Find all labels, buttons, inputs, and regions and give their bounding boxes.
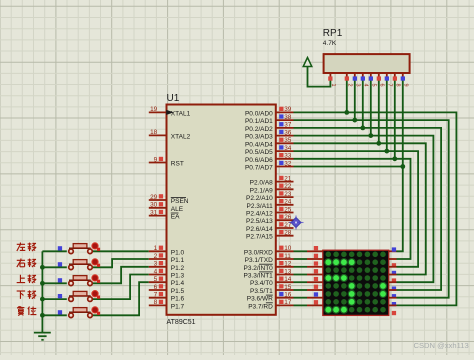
svg-text:8: 8 (154, 299, 158, 306)
svg-text:36: 36 (284, 129, 292, 136)
svg-text:P3.7/RD: P3.7/RD (248, 303, 273, 310)
svg-text:26: 26 (284, 214, 292, 221)
svg-text:P3.6/WR: P3.6/WR (247, 296, 273, 303)
svg-text:P1.4: P1.4 (171, 280, 185, 287)
svg-text:32: 32 (284, 160, 292, 167)
svg-text:P0.5/AD5: P0.5/AD5 (245, 149, 273, 156)
svg-text:P3.1/TXD: P3.1/TXD (245, 257, 273, 264)
svg-text:P1.3: P1.3 (171, 273, 185, 280)
svg-text:9: 9 (154, 156, 158, 163)
svg-text:P1.2: P1.2 (171, 265, 185, 272)
svg-text:P0.4/AD4: P0.4/AD4 (245, 141, 273, 148)
svg-text:2: 2 (346, 84, 352, 87)
svg-text:RST: RST (171, 161, 184, 168)
svg-text:P0.7/AD7: P0.7/AD7 (245, 165, 273, 172)
svg-text:31: 31 (150, 209, 158, 216)
svg-text:16: 16 (284, 292, 292, 299)
svg-text:15: 15 (284, 284, 292, 291)
svg-text:P1.0: P1.0 (171, 249, 185, 256)
svg-text:P3.3/INT1: P3.3/INT1 (244, 273, 274, 280)
svg-text:25: 25 (284, 206, 292, 213)
svg-text:1: 1 (154, 245, 158, 252)
svg-text:4: 4 (362, 84, 368, 87)
svg-text:P3.2/INT0: P3.2/INT0 (244, 265, 274, 272)
svg-text:12: 12 (284, 261, 292, 268)
svg-text:6: 6 (154, 284, 158, 291)
svg-text:P0.1/AD1: P0.1/AD1 (245, 118, 273, 125)
svg-text:P3.5/T1: P3.5/T1 (250, 288, 273, 295)
svg-text:6: 6 (378, 84, 384, 87)
svg-text:29: 29 (150, 194, 158, 201)
svg-text:XTAL2: XTAL2 (171, 133, 191, 140)
svg-text:7: 7 (154, 292, 158, 299)
svg-text:5: 5 (370, 84, 376, 87)
svg-text:PSEN: PSEN (171, 198, 189, 205)
svg-text:EA: EA (171, 214, 180, 221)
svg-text:P2.5/A13: P2.5/A13 (246, 218, 273, 225)
svg-text:37: 37 (284, 122, 292, 129)
svg-text:1: 1 (330, 84, 336, 87)
svg-text:19: 19 (150, 106, 158, 113)
svg-text:28: 28 (284, 230, 292, 237)
svg-text:5: 5 (154, 276, 158, 283)
svg-text:RP1: RP1 (323, 28, 343, 39)
svg-text:21: 21 (284, 175, 292, 182)
svg-text:2: 2 (154, 253, 158, 260)
svg-text:7: 7 (386, 84, 392, 87)
svg-text:P0.3/AD3: P0.3/AD3 (245, 134, 273, 141)
svg-text:P2.3/A11: P2.3/A11 (247, 203, 274, 210)
svg-text:13: 13 (284, 268, 292, 275)
svg-text:P2.2/A10: P2.2/A10 (246, 195, 273, 202)
svg-text:38: 38 (284, 114, 292, 121)
svg-text:P2.1/A9: P2.1/A9 (250, 187, 274, 194)
svg-text:ALE: ALE (171, 206, 184, 213)
svg-text:P3.4/T0: P3.4/T0 (250, 280, 273, 287)
svg-text:3: 3 (354, 84, 360, 87)
svg-text:23: 23 (284, 191, 292, 198)
svg-text:XTAL1: XTAL1 (171, 110, 191, 117)
svg-text:18: 18 (150, 129, 158, 136)
svg-text:P2.7/A15: P2.7/A15 (246, 234, 273, 241)
svg-text:P3.0/RXD: P3.0/RXD (244, 249, 273, 256)
svg-text:39: 39 (284, 106, 292, 113)
svg-text:P0.0/AD0: P0.0/AD0 (245, 110, 273, 117)
svg-text:P1.5: P1.5 (171, 288, 185, 295)
svg-text:4.7K: 4.7K (323, 40, 337, 47)
svg-text:P0.6/AD6: P0.6/AD6 (245, 157, 273, 164)
svg-text:P0.2/AD2: P0.2/AD2 (245, 126, 273, 133)
svg-text:33: 33 (284, 153, 292, 160)
svg-text:14: 14 (284, 276, 292, 283)
svg-text:P2.4/A12: P2.4/A12 (246, 211, 273, 218)
svg-text:11: 11 (284, 253, 291, 260)
svg-text:P1.1: P1.1 (171, 257, 185, 264)
svg-text:10: 10 (284, 245, 292, 252)
svg-text:3: 3 (154, 261, 158, 268)
svg-text:U1: U1 (167, 93, 180, 104)
svg-text:P1.7: P1.7 (171, 303, 185, 310)
svg-text:34: 34 (284, 145, 292, 152)
svg-text:AT89C51: AT89C51 (167, 319, 196, 326)
svg-text:17: 17 (284, 299, 292, 306)
svg-text:4: 4 (154, 268, 158, 275)
svg-text:22: 22 (284, 183, 292, 190)
svg-text:24: 24 (284, 199, 292, 206)
svg-text:P2.6/A14: P2.6/A14 (246, 226, 273, 233)
svg-text:9: 9 (402, 84, 408, 87)
svg-text:8: 8 (394, 84, 400, 87)
svg-text:CSDN @xxh113: CSDN @xxh113 (414, 341, 469, 350)
svg-text:P1.6: P1.6 (171, 296, 185, 303)
svg-text:35: 35 (284, 137, 292, 144)
svg-text:P2.0/A8: P2.0/A8 (250, 180, 274, 187)
svg-text:30: 30 (150, 202, 158, 209)
